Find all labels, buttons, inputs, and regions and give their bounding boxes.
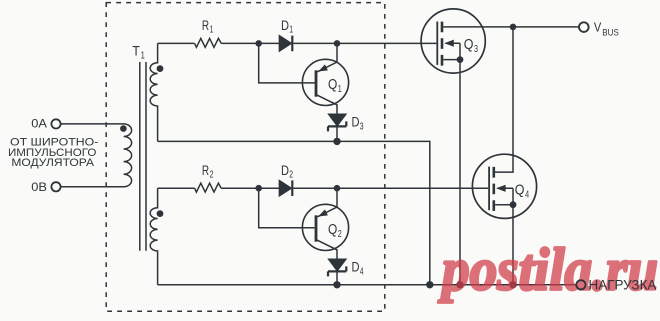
junction D4/output rail	[333, 281, 340, 288]
junction D1/Q1-emitter/Q3-gate	[334, 40, 341, 47]
resistor R1	[195, 38, 222, 47]
svg-text:R: R	[202, 18, 209, 33]
junction Q3 source/body	[457, 56, 464, 63]
transformer T1 secondary winding (top)	[150, 43, 157, 141]
terminal VBUS	[579, 22, 589, 32]
MOSFET Q3	[421, 9, 579, 73]
svg-text:1: 1	[210, 25, 214, 36]
transistor Q2	[302, 188, 348, 259]
transformer T1 primary winding	[61, 124, 132, 187]
terminal 0A	[51, 119, 60, 128]
zener diode D4	[328, 259, 346, 285]
junction D3/top-cell return	[333, 138, 340, 145]
svg-text:1: 1	[338, 83, 342, 95]
transformer T1 core	[140, 62, 146, 251]
svg-text:D: D	[352, 260, 360, 275]
junction Q4-source/output rail	[509, 281, 516, 288]
svg-text:BUS: BUS	[602, 27, 619, 38]
svg-text:0B: 0B	[31, 180, 47, 194]
wire Q3 source to output rail	[459, 60, 461, 285]
svg-text:1: 1	[289, 25, 293, 36]
svg-text:4: 4	[525, 188, 529, 200]
terminal load (НАГРУЗКА)	[576, 280, 585, 289]
svg-text:D: D	[281, 163, 289, 178]
svg-text:0A: 0A	[31, 117, 47, 131]
svg-text:Q: Q	[515, 182, 525, 198]
junction Q3-source/output rail	[456, 281, 463, 288]
diode D1	[279, 36, 292, 52]
svg-text:НАГРУЗКА: НАГРУЗКА	[589, 277, 658, 293]
svg-text:Q: Q	[328, 222, 337, 238]
terminal 0B	[51, 182, 60, 191]
MOSFET Q4	[472, 154, 536, 218]
junction R2/D2/Q2-base	[255, 185, 262, 192]
zener diode D3	[328, 114, 346, 141]
junction D2/Q2-emitter/Q4-gate	[334, 185, 341, 192]
svg-text:МОДУЛЯТОРА: МОДУЛЯТОРА	[11, 157, 94, 169]
svg-text:2: 2	[210, 170, 214, 181]
svg-text:4: 4	[360, 267, 364, 278]
svg-text:1: 1	[141, 51, 146, 62]
wire top rail left	[158, 42, 195, 44]
wire output rail	[158, 284, 577, 286]
diode D2	[279, 180, 292, 196]
wire R2 to D2	[221, 187, 279, 189]
phase dot top secondary winding	[157, 65, 164, 72]
phase dot bottom secondary winding	[157, 210, 164, 217]
junction Q4 source/body	[510, 201, 517, 208]
wire Q4 source to output rail	[512, 205, 514, 285]
wire mid rail (top cell return)	[158, 141, 430, 284]
wire D1 to Q3 gate	[293, 42, 436, 44]
svg-text:Q: Q	[328, 77, 337, 93]
junction Vbus/Q4-drain	[510, 24, 517, 31]
svg-text:2: 2	[338, 228, 342, 240]
wire bottom rail left	[158, 187, 195, 189]
transistor Q1	[302, 43, 348, 114]
svg-text:3: 3	[360, 122, 364, 133]
junction top-cell return/output rail	[426, 281, 433, 288]
transformer T1 secondary winding (bottom)	[150, 188, 157, 285]
svg-text:3: 3	[474, 43, 478, 55]
watermark postila.ru	[437, 237, 658, 303]
svg-text:T: T	[132, 43, 140, 58]
dashed driver box	[106, 3, 385, 312]
wire Q1 base	[259, 43, 315, 83]
resistor R2	[195, 183, 222, 192]
svg-text:V: V	[594, 20, 602, 35]
wire R1 to D1	[221, 42, 279, 44]
svg-text:R: R	[202, 163, 209, 178]
svg-text:Q: Q	[464, 37, 474, 53]
svg-text:D: D	[281, 18, 289, 33]
svg-text:2: 2	[289, 170, 293, 181]
phase dot primary winding	[120, 125, 127, 132]
svg-text:D: D	[352, 115, 360, 130]
wire Vbus node to Q4 drain	[495, 27, 513, 172]
wire Q2 base	[259, 188, 315, 228]
junction R1/D1/Q1-base	[255, 40, 262, 47]
wire D2 to Q4 gate	[293, 187, 488, 189]
